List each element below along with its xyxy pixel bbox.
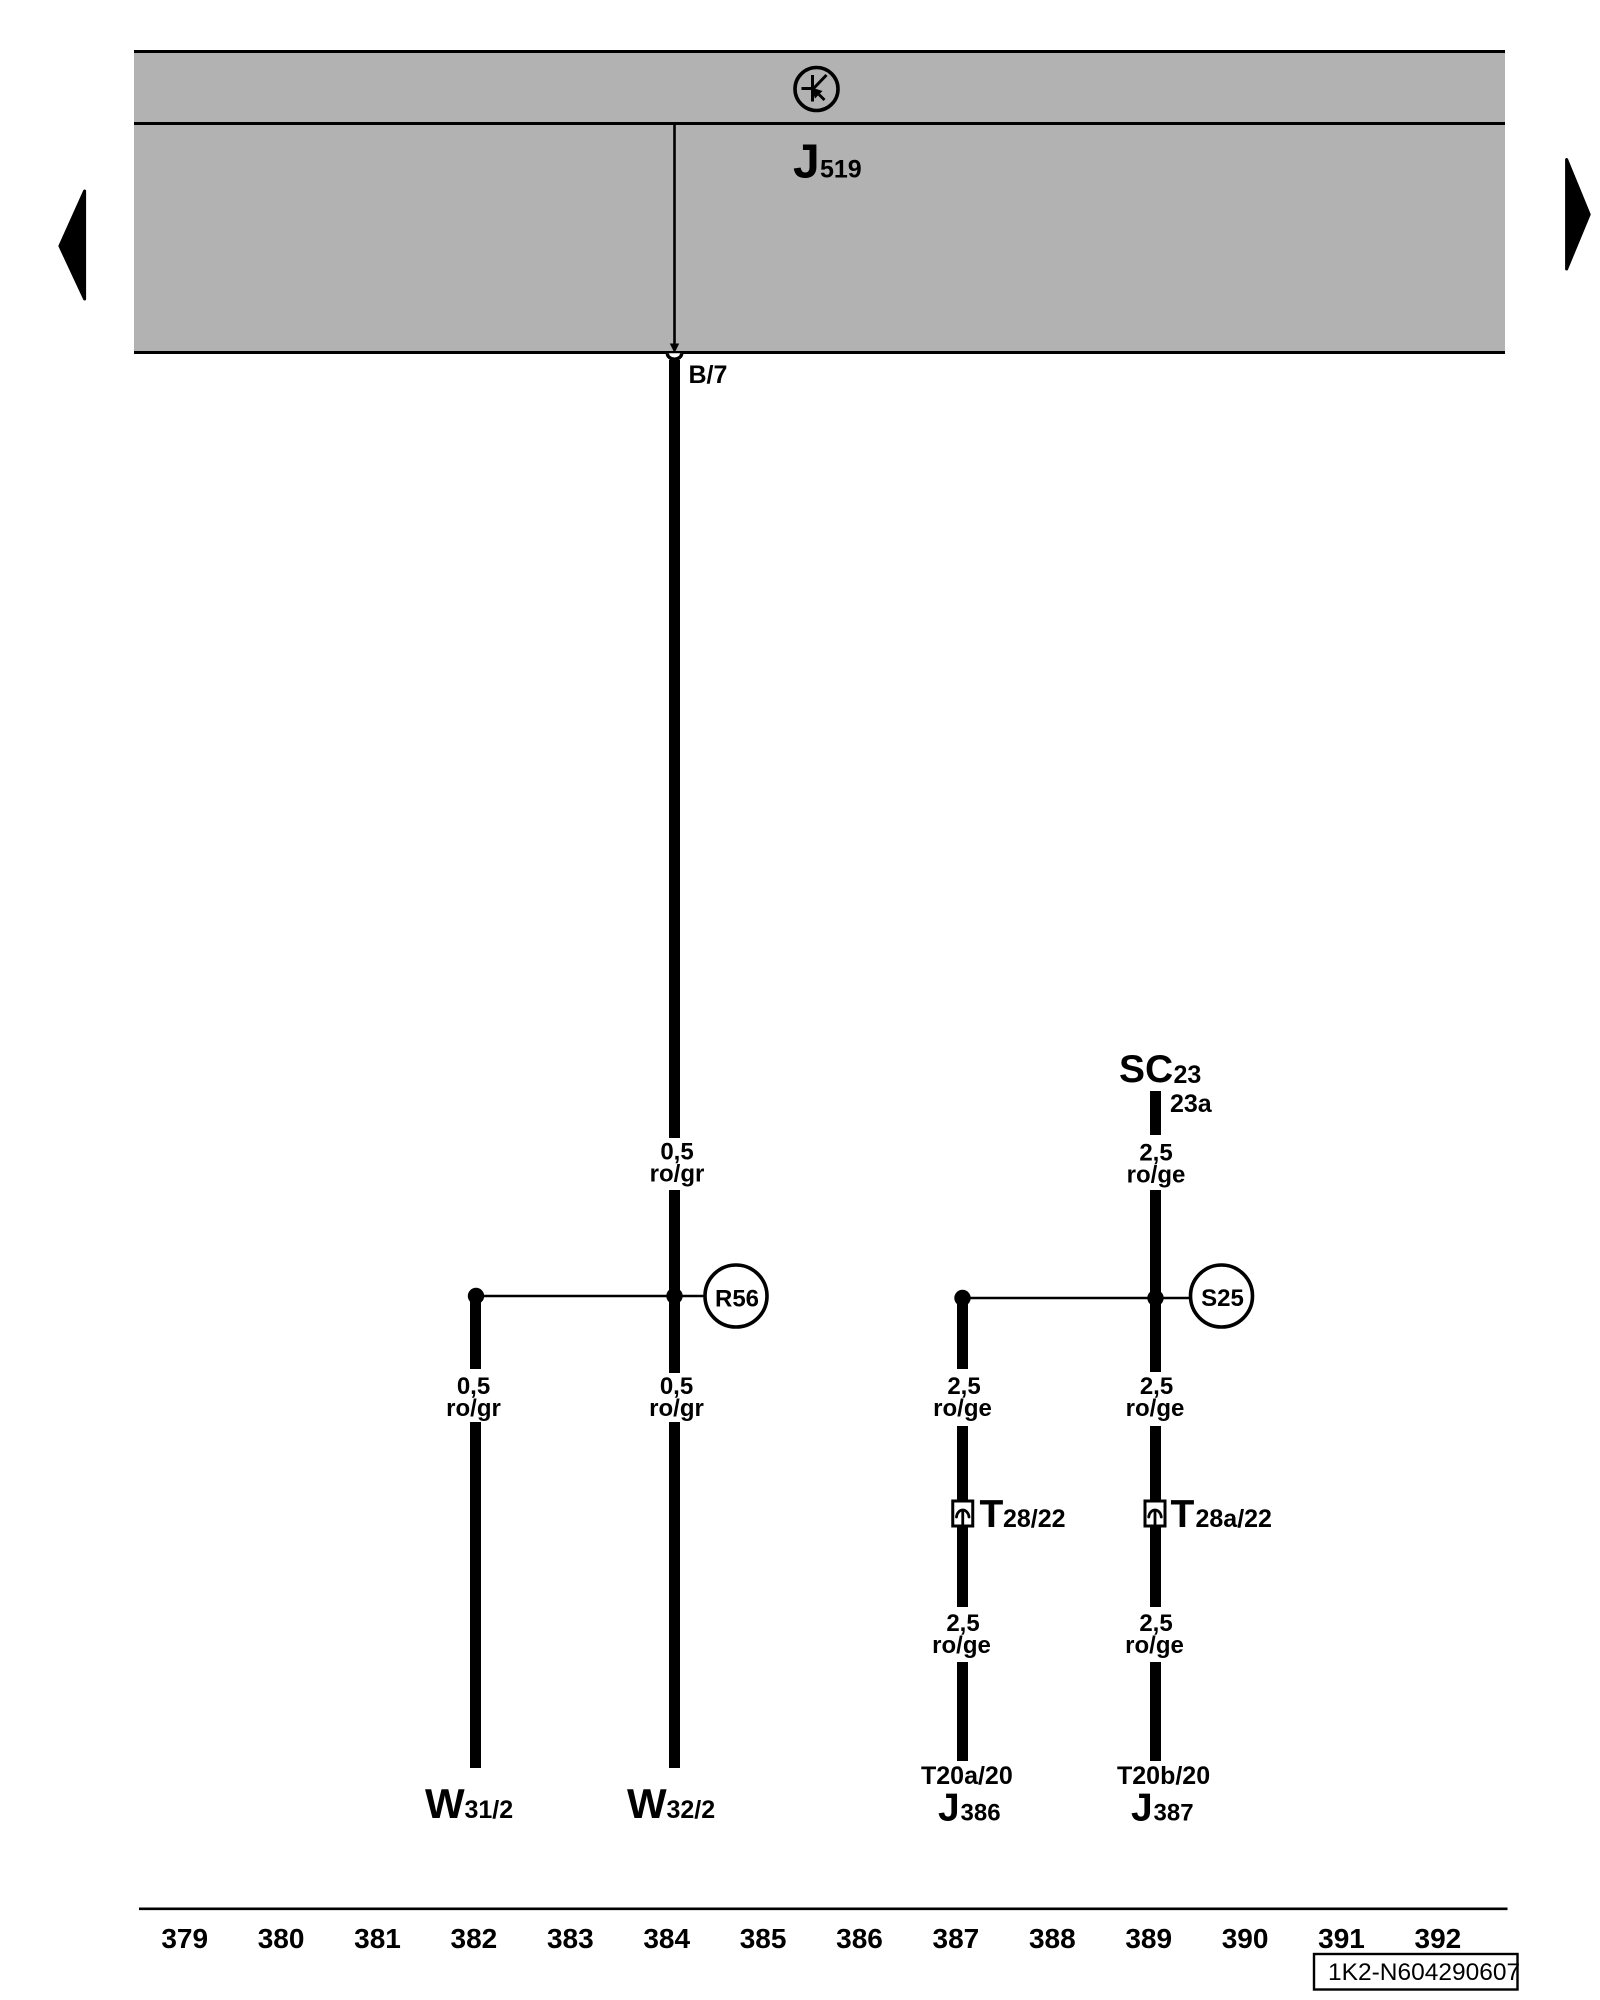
svg-text:380: 380: [258, 1923, 305, 1954]
connection symbol (circled arrow): [795, 68, 838, 111]
label 2,5 ro/ge J386: [933, 1373, 992, 1422]
wire SC segment to junction: [1150, 1190, 1161, 1372]
page arrow right: [1567, 160, 1590, 270]
wire J387 below connector: [1150, 1526, 1161, 1607]
label W32/2: [627, 1780, 715, 1827]
wire J387 upper segment: [1150, 1298, 1161, 1372]
svg-text:T20a/20: T20a/20: [921, 1762, 1013, 1790]
junction dot S25 wire: [1147, 1290, 1163, 1306]
svg-text:386: 386: [836, 1923, 883, 1954]
label T28a/22: [1171, 1493, 1272, 1536]
label 2,5 ro/ge J386 lower: [932, 1610, 991, 1659]
label 2,5 ro/ge upper SC: [1127, 1140, 1186, 1189]
diagram code box 1K2-N604290607: [1314, 1954, 1520, 1990]
svg-text:519: 519: [820, 156, 862, 184]
svg-text:387: 387: [933, 1923, 980, 1954]
wire J386 segment to connector: [957, 1426, 968, 1501]
svg-text:J: J: [1131, 1787, 1153, 1830]
current track scale line: [139, 1908, 1508, 1911]
band bottom border: [134, 351, 1505, 354]
node S25 circle: [1191, 1265, 1253, 1327]
svg-text:S25: S25: [1201, 1285, 1244, 1312]
wire W31 lower segment: [470, 1422, 481, 1768]
node junction line to R56: [476, 1295, 706, 1298]
junction dot left J386: [954, 1290, 970, 1306]
svg-text:T: T: [980, 1493, 1004, 1536]
junction dot main wire: [666, 1288, 682, 1304]
svg-text:32/2: 32/2: [667, 1796, 716, 1824]
svg-text:382: 382: [451, 1923, 498, 1954]
svg-text:390: 390: [1222, 1923, 1269, 1954]
svg-text:392: 392: [1415, 1923, 1462, 1954]
svg-text:23: 23: [1174, 1061, 1202, 1089]
label 0,5 ro/gr left lower: [446, 1373, 501, 1422]
label SC23: [1119, 1048, 1201, 1091]
wire main segment to junction: [669, 1190, 680, 1373]
svg-text:381: 381: [354, 1923, 401, 1954]
internal wire in J519 with arrowhead: [670, 125, 679, 353]
svg-text:ro/ge: ro/ge: [1125, 1632, 1184, 1659]
track numbers 379-392: [161, 1923, 1461, 1954]
wire J386 below connector: [957, 1526, 968, 1607]
wire J387 segment to connector: [1150, 1426, 1161, 1501]
junction dot left W31: [468, 1288, 484, 1304]
label J386: [938, 1787, 1001, 1830]
svg-text:ro/ge: ro/ge: [933, 1395, 992, 1422]
band divider line: [134, 122, 1505, 125]
svg-text:J: J: [793, 136, 820, 189]
svg-text:386: 386: [961, 1800, 1001, 1827]
svg-text:389: 389: [1125, 1923, 1172, 1954]
terminal socket cup at B/7: [667, 353, 681, 359]
svg-text:384: 384: [643, 1923, 690, 1954]
svg-text:SC: SC: [1119, 1048, 1173, 1091]
wire main lower segment: [669, 1422, 680, 1768]
node junction line to S25: [963, 1297, 1192, 1300]
svg-text:379: 379: [161, 1923, 208, 1954]
svg-text:R56: R56: [715, 1286, 759, 1313]
wire J386 upper segment: [957, 1298, 968, 1369]
svg-text:ro/gr: ro/gr: [649, 1395, 704, 1422]
svg-text:28/22: 28/22: [1003, 1505, 1066, 1533]
svg-text:387: 387: [1154, 1800, 1194, 1827]
label J387: [1131, 1787, 1194, 1830]
svg-text:T: T: [1171, 1493, 1195, 1536]
page arrow left: [60, 191, 85, 299]
svg-text:391: 391: [1318, 1923, 1365, 1954]
svg-text:ro/ge: ro/ge: [1126, 1395, 1185, 1422]
wire J387 bottom segment: [1150, 1662, 1161, 1761]
svg-text:388: 388: [1029, 1923, 1076, 1954]
svg-text:385: 385: [740, 1923, 787, 1954]
label 0,5 ro/gr main lower: [649, 1373, 704, 1422]
wire main segment from J519: [669, 360, 680, 1138]
label W31/2: [425, 1780, 513, 1827]
wire W31 upper segment: [470, 1296, 481, 1369]
svg-text:23a: 23a: [1170, 1090, 1213, 1118]
svg-text:ro/ge: ro/ge: [1127, 1162, 1186, 1189]
label 0,5 ro/gr upper: [650, 1139, 705, 1188]
svg-text:31/2: 31/2: [465, 1796, 514, 1824]
svg-text:ro/ge: ro/ge: [932, 1632, 991, 1659]
control unit J519 gray band: [134, 50, 1505, 354]
svg-text:28a/22: 28a/22: [1196, 1505, 1272, 1533]
label 2,5 ro/ge J387 lower: [1125, 1610, 1184, 1659]
svg-text:383: 383: [547, 1923, 594, 1954]
svg-text:ro/gr: ro/gr: [650, 1161, 705, 1188]
label T28/22: [980, 1493, 1066, 1536]
connector symbol T28/22: [953, 1501, 973, 1526]
svg-text:ro/gr: ro/gr: [446, 1395, 501, 1422]
connector symbol T28a/22: [1145, 1501, 1165, 1526]
svg-text:J: J: [938, 1787, 960, 1830]
label J519: [793, 136, 862, 189]
band top border: [134, 50, 1505, 53]
svg-text:B/7: B/7: [689, 361, 728, 389]
svg-text:W: W: [627, 1780, 667, 1827]
label 2,5 ro/ge J387: [1126, 1373, 1185, 1422]
svg-text:1K2-N604290607: 1K2-N604290607: [1328, 1959, 1520, 1986]
wire J386 bottom segment: [957, 1662, 968, 1761]
fuse stub wire 23a: [1150, 1091, 1161, 1135]
svg-text:W: W: [425, 1780, 465, 1827]
node R56 circle: [705, 1265, 767, 1327]
